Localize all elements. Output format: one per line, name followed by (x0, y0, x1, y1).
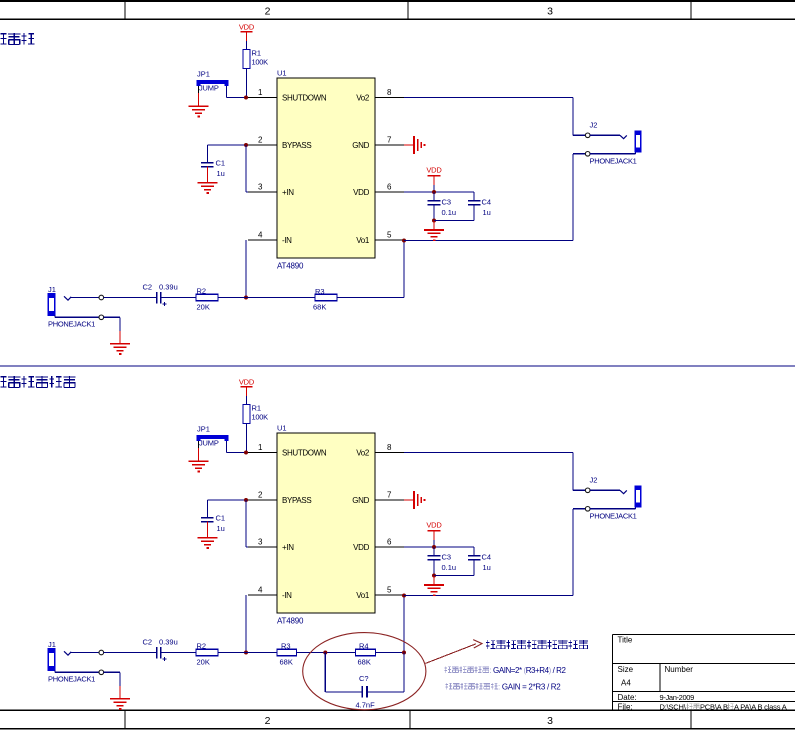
pin 4 -IN (248, 594, 277, 596)
wire -IN down (245, 595, 247, 653)
resistor R3 68K (ckt2) (277, 642, 297, 667)
svg-text:AT4890: AT4890 (277, 617, 304, 626)
power VDD (C3) (426, 165, 442, 185)
svg-text:D:\SCH\: D:\SCH\ (660, 703, 687, 712)
op-amp U1 AT4890 (277, 424, 375, 626)
svg-text:R2: R2 (197, 642, 207, 651)
junction R4 right (402, 651, 406, 655)
svg-text:-IN: -IN (282, 591, 292, 600)
wire C2 to R2 (161, 652, 196, 654)
svg-text:Title: Title (618, 636, 633, 645)
connector J1 PHONEJACK1 (48, 640, 104, 684)
svg-text:PHONEJACK1: PHONEJACK1 (590, 156, 637, 165)
ground (JP1) (189, 460, 209, 462)
capacitor C1 1u (201, 500, 225, 533)
title text circuit 1 (CJK) (0, 33, 34, 45)
wire C1 to ground (207, 167, 209, 183)
pin 6 VDD (375, 191, 404, 193)
junction pin1 node (244, 451, 248, 455)
svg-text:7: 7 (387, 136, 392, 145)
svg-text:3: 3 (547, 715, 553, 727)
svg-text:PCB\A B: PCB\A B (700, 703, 728, 712)
svg-text:JUMP: JUMP (199, 439, 219, 448)
svg-text:JUMP: JUMP (199, 84, 219, 93)
wire BYPASS node (208, 144, 249, 146)
wire Vo1 feedback vertical (403, 595, 405, 653)
wire -IN down (245, 240, 247, 298)
svg-text:8: 8 (387, 443, 392, 452)
svg-text:1u: 1u (217, 169, 225, 178)
svg-text:Vo2: Vo2 (356, 449, 370, 458)
resistor R1 100K (243, 49, 268, 69)
wire BYPASS to +IN (245, 145, 247, 192)
svg-text:AT4890: AT4890 (277, 262, 304, 271)
ground (C3) (424, 229, 444, 231)
svg-text:Size: Size (618, 665, 634, 674)
wire pin6 to C4 (404, 546, 474, 548)
junction BYPASS (244, 143, 248, 147)
svg-text:2: 2 (265, 6, 271, 18)
svg-text:R3: R3 (281, 642, 291, 651)
svg-text:PHONEJACK1: PHONEJACK1 (48, 320, 95, 329)
wire VDD to pin6 (433, 185, 435, 192)
resistor R3 68K (ckt1) (313, 287, 337, 312)
svg-text:5: 5 (387, 586, 392, 595)
junction Vo1 (402, 594, 406, 598)
sheet border bottom band (0, 710, 795, 728)
ground (C3) (424, 584, 444, 586)
svg-text:1u: 1u (483, 208, 491, 217)
wire VDD to R1 (246, 41, 248, 50)
pin 7 GND (375, 144, 404, 146)
wire pin6 to C4 (404, 191, 474, 193)
capacitor C4 1u (468, 547, 491, 576)
title block (613, 635, 795, 712)
svg-text:VDD: VDD (353, 188, 369, 197)
svg-text:R1: R1 (252, 404, 262, 413)
junction -IN/R2/R3 (244, 296, 248, 300)
connector J2 PHONEJACK1 (585, 476, 641, 521)
pin 3 +IN (248, 191, 277, 193)
jumper JP1 JUMP (197, 425, 227, 448)
wire JP1 left pin to ground (198, 441, 200, 448)
wire JP1 right pin to pin1 (226, 441, 228, 453)
pin 4 -IN (248, 239, 277, 241)
svg-text:R3: R3 (315, 287, 325, 296)
capacitor C2 0.39u (143, 637, 178, 661)
svg-text:0.39u: 0.39u (159, 637, 178, 646)
svg-text:Vo1: Vo1 (356, 236, 370, 245)
junction pin6/C3 (432, 545, 436, 549)
wire C3 to ground (433, 576, 435, 585)
connector J1 PHONEJACK1 (48, 285, 104, 329)
resistor R4 68K (356, 642, 376, 667)
svg-text:Number: Number (665, 665, 694, 674)
svg-text:VDD: VDD (239, 23, 255, 32)
svg-text:1: 1 (258, 443, 263, 452)
svg-text:100K: 100K (252, 58, 269, 67)
svg-text:J2: J2 (590, 121, 598, 130)
annotation text (CJK) (486, 640, 588, 649)
pin 6 VDD (375, 546, 404, 548)
resistor R1 100K (243, 404, 268, 424)
ground (C1) (198, 537, 218, 539)
wire Vo1 feedback vertical (403, 240, 405, 298)
wire R3 to Vo1 (ckt1) (337, 297, 404, 299)
wire C branch left (324, 653, 326, 693)
svg-text:C4: C4 (482, 197, 492, 206)
junction C3 bottom (432, 574, 436, 578)
ground (JP1) (189, 105, 209, 107)
wire VDD to pin6 (433, 540, 435, 547)
wire R1 to pin1 node (246, 424, 248, 453)
svg-text:J1: J1 (48, 285, 56, 294)
wire C3/C4 bottoms (434, 575, 474, 577)
svg-text:1u: 1u (483, 563, 491, 572)
svg-text:C4: C4 (482, 552, 492, 561)
svg-text:VDD: VDD (353, 543, 369, 552)
svg-text:Date:: Date: (618, 693, 637, 702)
svg-text:C2: C2 (143, 282, 153, 291)
wire JP1 right pin to pin1 (226, 86, 228, 98)
svg-text:4.7nF: 4.7nF (356, 701, 376, 710)
svg-text:J1: J1 (48, 640, 56, 649)
svg-text:Vo2: Vo2 (356, 94, 370, 103)
svg-text:1u: 1u (217, 524, 225, 533)
junction Vo1 (402, 239, 406, 243)
svg-text:: GAIN = 2*R3 / R2: : GAIN = 2*R3 / R2 (498, 683, 561, 692)
svg-text:3: 3 (547, 6, 553, 18)
junction pin6/C3 (432, 190, 436, 194)
svg-text:3: 3 (258, 183, 263, 192)
svg-text:R4: R4 (359, 642, 369, 651)
annotation arrow (426, 640, 483, 664)
pin 1 SHUTDOWN (248, 97, 277, 99)
svg-text:100K: 100K (252, 413, 269, 422)
resistor R2 20K (196, 287, 218, 312)
ground (J1) (110, 698, 130, 700)
capacitor C3 0.1u (428, 547, 456, 576)
wire R1 to pin1 node (246, 69, 248, 98)
capacitor C2 0.39u (143, 282, 178, 306)
junction pin1 node (244, 96, 248, 100)
svg-text:PHONEJACK1: PHONEJACK1 (590, 511, 637, 520)
wire Vo1 vertical down to C (403, 653, 405, 693)
wire J1 tip to C2 (104, 297, 156, 299)
svg-text:4: 4 (258, 586, 263, 595)
svg-text:5: 5 (387, 231, 392, 240)
svg-text:: GAIN=2* (R3+R4) / R2: : GAIN=2* (R3+R4) / R2 (490, 666, 567, 675)
divider line (0, 365, 795, 367)
svg-text:PHONEJACK1: PHONEJACK1 (48, 675, 95, 684)
svg-text:C3: C3 (442, 197, 452, 206)
wire J1 tip to C2 (104, 652, 156, 654)
svg-text:R1: R1 (252, 49, 262, 58)
svg-text:Vo1: Vo1 (356, 591, 370, 600)
power VDD (R1 top) (239, 378, 255, 397)
svg-text:+IN: +IN (282, 188, 294, 197)
svg-text:U1: U1 (277, 424, 287, 433)
sheet border top band (0, 1, 795, 19)
svg-text:-IN: -IN (282, 236, 292, 245)
svg-text:BYPASS: BYPASS (282, 141, 311, 150)
svg-text:20K: 20K (197, 658, 210, 667)
svg-text:VDD: VDD (426, 165, 442, 174)
svg-text:SHUTDOWN: SHUTDOWN (282, 449, 327, 458)
wire C2 to R2 (161, 297, 196, 299)
svg-text:+IN: +IN (282, 543, 294, 552)
svg-text:20K: 20K (197, 303, 210, 312)
pin 8 Vo2 (375, 452, 404, 454)
wire R3 to R4 (ckt2) (297, 652, 356, 654)
gain formula 1 (444, 666, 489, 673)
junction C3 bottom (432, 219, 436, 223)
svg-text:JP1: JP1 (197, 425, 210, 434)
svg-text:File:: File: (618, 703, 633, 712)
svg-text:9-Jan-2009: 9-Jan-2009 (660, 693, 695, 702)
pin 3 +IN (248, 546, 277, 548)
annotation ellipse (303, 633, 426, 710)
svg-text:0.1u: 0.1u (442, 563, 457, 572)
capacitor C? 4.7nF (356, 674, 376, 710)
wire C1 to ground (207, 522, 209, 538)
svg-text:0.1u: 0.1u (442, 208, 457, 217)
wire Vo1 to J2 (404, 595, 573, 597)
wire R2 to R3 (ckt1) (218, 297, 315, 299)
svg-text:3: 3 (258, 538, 263, 547)
junction R4 left (323, 651, 327, 655)
jumper JP1 JUMP (197, 70, 227, 93)
wire JP1 left pin to ground (198, 86, 200, 93)
svg-text:BYPASS: BYPASS (282, 496, 311, 505)
svg-text:SHUTDOWN: SHUTDOWN (282, 94, 327, 103)
capacitor C3 0.1u (428, 192, 456, 221)
wire C to Vo1 vertical (367, 691, 404, 693)
wire J1 sleeve to ground (104, 316, 120, 318)
wire R4 to Vo1 vertical (376, 652, 405, 654)
svg-text:C1: C1 (216, 514, 226, 523)
svg-text:8: 8 (387, 88, 392, 97)
svg-text:C2: C2 (143, 637, 153, 646)
capacitor C4 1u (468, 192, 491, 221)
wire Vo2 to J2 (404, 97, 573, 99)
pin 2 BYPASS (248, 144, 277, 146)
power ground (pin 7) (404, 491, 425, 509)
pin 1 SHUTDOWN (248, 452, 277, 454)
power VDD (R1 top) (239, 23, 255, 42)
wire BYPASS node (208, 499, 249, 501)
svg-text:2: 2 (265, 715, 271, 727)
connector J2 PHONEJACK1 (585, 121, 641, 166)
svg-text:GND: GND (352, 496, 369, 505)
pin 5 Vo1 (375, 594, 404, 596)
wire BYPASS to +IN (245, 500, 247, 547)
svg-text:J2: J2 (590, 476, 598, 485)
svg-text:R2: R2 (197, 287, 207, 296)
wire Vo1 to J2 (404, 240, 573, 242)
svg-text:C1: C1 (216, 159, 226, 168)
junction BYPASS (244, 498, 248, 502)
ground (C1) (198, 182, 218, 184)
svg-text:4: 4 (258, 231, 263, 240)
capacitor C1 1u (201, 145, 225, 178)
svg-text:2: 2 (258, 136, 263, 145)
pin 5 Vo1 (375, 239, 404, 241)
ground (J1) (110, 343, 130, 345)
svg-text:1: 1 (258, 88, 263, 97)
pin 7 GND (375, 499, 404, 501)
svg-text:2: 2 (258, 491, 263, 500)
wire C3 to ground (433, 221, 435, 230)
power VDD (C3) (426, 520, 442, 540)
gain formula 2 (445, 683, 498, 690)
resistor R2 20K (196, 642, 218, 667)
svg-text:VDD: VDD (426, 520, 442, 529)
power ground (pin 7) (404, 136, 425, 154)
title text circuit 2 (CJK) (0, 376, 76, 388)
svg-text:U1: U1 (277, 69, 287, 78)
svg-text:7: 7 (387, 491, 392, 500)
junction -IN/R2/R3 (244, 651, 248, 655)
svg-text:A PA\A B class A: A PA\A B class A (734, 703, 787, 712)
pin 8 Vo2 (375, 97, 404, 99)
svg-text:C?: C? (359, 674, 369, 683)
svg-text:68K: 68K (280, 658, 293, 667)
svg-text:6: 6 (387, 183, 392, 192)
wire VDD to R1 (246, 396, 248, 405)
svg-text:GND: GND (352, 141, 369, 150)
pin 2 BYPASS (248, 499, 277, 501)
svg-text:68K: 68K (358, 658, 371, 667)
svg-text:JP1: JP1 (197, 70, 210, 79)
svg-text:0.39u: 0.39u (159, 282, 178, 291)
svg-text:VDD: VDD (239, 378, 255, 387)
op-amp U1 AT4890 (277, 69, 375, 271)
svg-text:A4: A4 (621, 679, 631, 688)
svg-text:68K: 68K (313, 303, 326, 312)
svg-text:6: 6 (387, 538, 392, 547)
svg-text:C3: C3 (442, 552, 452, 561)
wire C3/C4 bottoms (434, 220, 474, 222)
wire J1 sleeve to ground (104, 671, 120, 673)
wire R2 to R3 (ckt2) (218, 652, 277, 654)
wire Vo2 to J2 (404, 452, 573, 454)
